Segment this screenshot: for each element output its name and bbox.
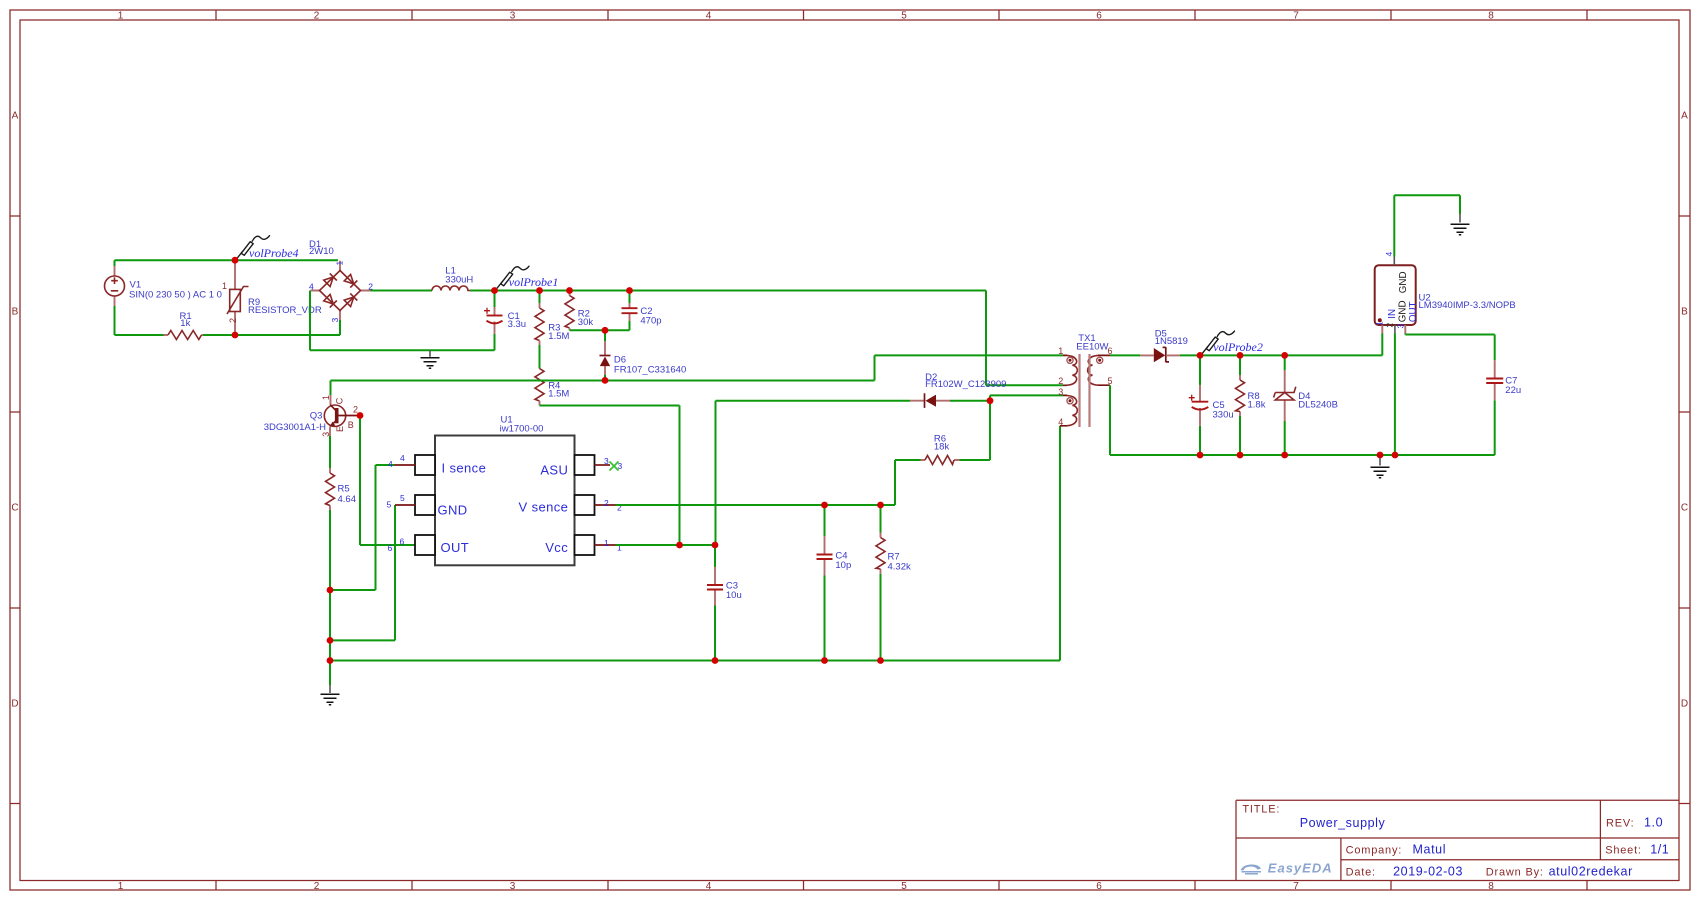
svg-text:volProbe1: volProbe1 [509,275,559,289]
svg-text:GND: GND [1398,271,1409,293]
U1 pin 2 V sence [519,495,622,515]
diode D2 [716,393,991,545]
svg-text:4.64: 4.64 [338,494,357,505]
svg-text:3: 3 [510,10,516,21]
svg-text:TITLE:: TITLE: [1242,804,1280,816]
svg-text:REV:: REV: [1606,818,1634,830]
svg-text:1.8k: 1.8k [1248,399,1266,410]
zener diode D4 [1274,355,1296,455]
svg-text:1/1: 1/1 [1650,843,1669,857]
varistor R9 [222,260,249,335]
svg-text:7: 7 [1293,10,1299,21]
junction C5 top [1197,352,1204,359]
svg-text:7: 7 [1293,881,1299,892]
svg-text:8: 8 [1488,881,1494,892]
junction ground rail left [327,657,334,664]
resistor R3 [535,291,544,369]
svg-text:A: A [12,110,19,121]
wire bridge pin3 down [339,320,341,335]
svg-text:EE10W: EE10W [1076,342,1108,353]
wire TX1 pin6 to D5 [1110,354,1140,356]
U1 pin 4 I sence [388,453,486,476]
svg-text:4: 4 [706,881,712,892]
wire R4 bottom to Vcc node [540,406,680,546]
svg-text:1: 1 [118,10,124,21]
svg-text:DL5240B: DL5240B [1298,399,1338,410]
label C5 / 330u [1213,400,1234,420]
svg-text:330uH: 330uH [445,274,473,285]
svg-text:3: 3 [330,318,340,323]
svg-text:2: 2 [353,405,358,415]
diode bridge D1 [311,261,371,320]
regulator U2 [1375,257,1416,334]
transformer TX1 [1060,354,1110,427]
resistor R6 [895,401,990,465]
svg-text:A: A [1681,110,1688,121]
wire ground rail [330,426,1060,661]
junction C2 top [626,287,633,294]
svg-text:E: E [335,426,345,432]
wire R2 C2 bottom [570,329,630,331]
junction C3/Vcc [712,542,719,549]
label R7 / 4.32k [888,552,911,573]
svg-text:FR102W_C123909: FR102W_C123909 [925,379,1006,390]
junction C4 top [821,502,828,509]
junction R8 top [1237,352,1244,359]
ground output rail [1371,455,1390,478]
junction R4/Vcc [676,542,683,549]
svg-text:5: 5 [387,499,392,509]
svg-text:1: 1 [1058,346,1063,356]
junction U2 GND riser [1392,452,1399,459]
svg-text:1.0: 1.0 [1644,816,1663,830]
svg-text:1.5M: 1.5M [548,331,569,342]
svg-text:C: C [335,397,345,404]
inductor L1 [432,286,470,291]
transistor Q3 [324,381,358,437]
junction GND node [327,637,334,644]
svg-text:3.3u: 3.3u [508,319,526,330]
svg-text:LM3940IMP-3.3/NOPB: LM3940IMP-3.3/NOPB [1419,300,1516,311]
svg-text:8: 8 [1488,10,1494,21]
junction D2 / TX1 pin3 [987,397,994,404]
label C7 / 22u [1505,376,1521,397]
svg-text:volProbe4: volProbe4 [249,246,299,260]
label volProbe1 [509,275,559,289]
EasyEDA logo [1241,861,1333,876]
wire U2 pin4 to ground [1394,195,1460,256]
svg-text:C: C [1681,502,1688,513]
svg-text:10u: 10u [726,590,742,601]
wire output rail [1180,334,1383,356]
svg-text:5: 5 [901,881,907,892]
svg-text:1: 1 [335,261,345,266]
U1 pin 6 OUT [388,535,470,555]
junction D6 bottom [602,377,609,384]
svg-text:3: 3 [510,881,516,892]
svg-text:Sheet:: Sheet: [1605,845,1642,857]
svg-text:1: 1 [321,395,331,400]
svg-text:1.5M: 1.5M [548,388,569,399]
svg-text:2: 2 [1058,376,1063,386]
capacitor C5 [1189,355,1209,455]
junction R5 bottom [327,587,334,594]
svg-text:4: 4 [1384,252,1394,257]
resistor R1 [164,331,204,340]
junction V1 bottom / R9 [232,332,239,339]
svg-text:18k: 18k [934,441,950,452]
wire bridge pin2 to L1 [371,290,433,292]
svg-text:C: C [11,502,18,513]
svg-text:1: 1 [222,281,227,291]
wire TX1 pin5 to output gnd rail [1110,385,1495,455]
junction C3 bottom [712,657,719,664]
U1 pin 3 ASU no-connect [540,455,622,478]
title block [1236,800,1679,880]
svg-text:2: 2 [314,881,320,892]
label D4 / DL5240B [1298,391,1338,410]
junction R7 bottom [877,657,884,664]
wire TX1 pin3 [990,395,1063,400]
label L1 / 330uH [445,266,473,286]
label TX1 / EE10W [1076,333,1108,353]
svg-text:5: 5 [1108,376,1113,386]
svg-text:6: 6 [400,536,405,546]
wire GND pin5 [330,505,395,640]
label C2 / 470p [640,306,661,326]
svg-text:6: 6 [1096,10,1102,21]
label R3 / 1.5M [548,323,569,342]
label C1 / 3.3u [508,311,526,330]
svg-text:V sence: V sence [519,500,569,515]
svg-text:D: D [11,698,18,709]
svg-text:2019-02-03: 2019-02-03 [1393,864,1463,878]
voltage source V1 [105,266,125,306]
svg-text:4: 4 [1058,417,1063,427]
svg-text:4.32k: 4.32k [888,561,911,572]
probe volProbe1 [496,266,529,289]
capacitor C3 [707,545,723,661]
wire V sence net [616,460,896,505]
TX1 pin numbers [1058,346,1112,427]
svg-text:4: 4 [309,281,314,291]
ground main [321,685,340,705]
wire V1 stubs [114,260,116,266]
svg-text:1: 1 [1375,321,1385,326]
label D1 / 2W10 [309,239,334,257]
svg-text:3: 3 [1058,387,1063,397]
wire V1 bottom rail [115,306,341,335]
junction D4 bottom [1281,452,1288,459]
wire emitter / ground bus [329,510,331,685]
svg-text:SIN(0 230 50 ) AC 1 0: SIN(0 230 50 ) AC 1 0 [129,290,222,301]
svg-text:2: 2 [228,318,238,323]
svg-text:6: 6 [388,543,393,553]
junction D6 top [602,327,609,334]
junction C5 bottom [1197,452,1204,459]
svg-text:3: 3 [604,456,609,466]
svg-text:4: 4 [706,10,712,21]
svg-text:D: D [1681,698,1688,709]
junction R3 top [536,287,543,294]
U1 pin 1 Vcc [545,535,622,555]
junction C1 top [491,287,498,294]
label U2 / LM3940IMP-3.3/NOPB [1419,293,1516,312]
label U1 / iw1700-00 [500,415,544,435]
junction output ground [1377,452,1384,459]
probe volProbe2 [1202,331,1235,354]
resistor R8 [1236,355,1245,455]
label R6 / 18k [934,434,950,453]
svg-text:Q3: Q3 [310,410,323,421]
label R2 / 30k [578,309,594,329]
junction Q3 base [357,412,364,419]
svg-text:1: 1 [118,881,124,892]
U1 pin 5 GND [387,493,468,518]
capacitor C2 [622,291,638,331]
capacitor C4 [817,505,833,661]
junction V1 top / R9 [232,257,239,264]
svg-text:1k: 1k [180,318,190,329]
label C3 / 10u [726,581,742,602]
svg-text:Matul: Matul [1413,842,1447,856]
D1 pin numbers 1 2 3 4 [309,261,373,323]
wire collector rail to TX1 pin1 [331,355,1064,380]
diode D6 [600,330,611,380]
svg-text:4: 4 [388,459,393,469]
junction R2 top [566,287,573,294]
svg-text:30k: 30k [578,317,594,328]
svg-text:I sence: I sence [442,461,487,476]
label R5 / 4.64 [338,484,357,505]
wire bridge pin4 to negative rail [310,291,495,351]
probe volProbe4 [237,236,270,259]
svg-text:GND: GND [438,502,468,517]
capacitor C7 [1486,360,1503,455]
svg-text:B: B [1681,306,1688,317]
U2 pin names rotated [1387,271,1419,322]
svg-text:3: 3 [1396,324,1406,329]
svg-text:2: 2 [314,10,320,21]
svg-text:OUT: OUT [1408,301,1419,322]
svg-text:2W10: 2W10 [309,246,334,257]
svg-text:Power_supply: Power_supply [1300,816,1386,830]
svg-text:EasyEDA: EasyEDA [1268,861,1333,876]
svg-text:volProbe2: volProbe2 [1213,340,1263,354]
resistor R5 [326,468,335,510]
label R1 / 1k [180,311,192,329]
svg-text:atul02redekar: atul02redekar [1549,864,1633,878]
wire V1 top rail [115,259,339,261]
svg-text:470p: 470p [640,315,661,326]
wire Vcc net [616,544,716,546]
label C4 / 10p [835,551,851,572]
wire Q3 emitter down [329,436,331,468]
svg-text:Vcc: Vcc [545,540,568,555]
svg-text:10p: 10p [835,560,851,571]
IC U1 body [435,436,575,566]
svg-text:2: 2 [1385,323,1395,328]
svg-text:22u: 22u [1505,385,1521,396]
diode D5 schottky [1140,347,1180,362]
ground top right [1451,214,1470,235]
svg-text:2: 2 [604,498,609,508]
svg-text:330u: 330u [1213,409,1234,420]
svg-text:5: 5 [400,493,405,503]
svg-text:Company:: Company: [1346,844,1403,856]
svg-text:1N5819: 1N5819 [1155,336,1188,347]
label V1 / SIN(0 230 50 ) AC 1 0 [129,279,222,300]
label volProbe4 [249,246,299,260]
svg-text:B: B [12,306,19,317]
svg-text:6: 6 [1096,881,1102,892]
junction R7 top [877,502,884,509]
label D6 / FR107_C331640 [614,355,686,376]
junction C4 bottom [821,657,828,664]
label volProbe2 [1213,340,1263,354]
junction D4 top [1281,352,1288,359]
label D5 / 1N5819 [1155,328,1188,347]
svg-text:FR107_C331640: FR107_C331640 [614,365,686,376]
Q3 pin numbers and C B E marks [321,395,358,437]
U2 pin numbers [1375,252,1406,329]
capacitor C1 [484,291,503,351]
wire U2 pin3 OUT to C7 [1405,334,1494,361]
svg-text:1: 1 [604,538,609,548]
svg-text:3DG3001A1-H: 3DG3001A1-H [264,422,326,433]
svg-text:4: 4 [400,453,405,463]
resistor R2 [565,291,574,331]
label R8 / 1.8k [1248,391,1266,410]
svg-text:B: B [348,420,354,430]
wire U2 pin2 to ground rail [1394,334,1396,456]
label R9 / RESISTOR_VDR [248,297,322,316]
resistor R4 [535,369,544,406]
resistor R7 [876,505,885,661]
svg-text:Date:: Date: [1346,866,1376,878]
svg-text:GND: GND [1397,300,1408,322]
svg-text:ASU: ASU [540,463,568,478]
svg-text:iw1700-00: iw1700-00 [500,423,544,434]
ground at negative rail [421,350,440,368]
svg-text:OUT: OUT [441,540,470,555]
wire I sence pin4 [330,465,395,590]
wire Q3 base to OUT pin [360,418,415,545]
junction R8 bottom [1237,452,1244,459]
label D2 / FR102W_C123909 [925,372,1006,390]
label R4 / 1.5M [548,381,569,400]
svg-text:5: 5 [901,10,907,21]
label Q3 / 3DG3001A1-H [264,410,326,433]
svg-text:Drawn By:: Drawn By: [1486,866,1544,878]
wire top DC rail [470,291,1063,386]
